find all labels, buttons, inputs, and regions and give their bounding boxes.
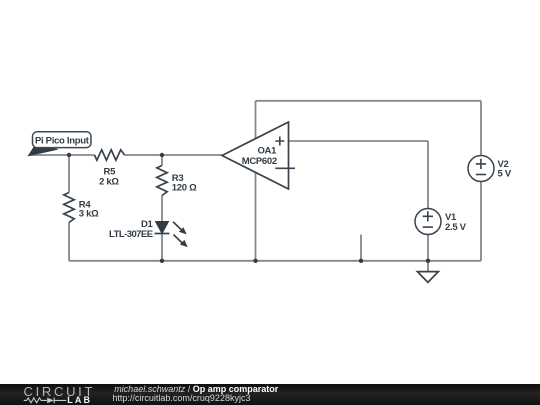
op-amp OA1 triangle [222,122,289,189]
wire: dangling stub at rail [360,235,362,261]
LED arrow 2 [174,235,184,244]
wire: node B down to R3 top [161,155,163,166]
resistor R4 [64,193,74,223]
resistor R3 [157,166,167,196]
wire: op-amp V+ pin up [255,101,257,139]
wire: V2 top lead [480,101,482,156]
node: junction op-amp V- to rail [253,259,257,263]
voltage source V2 [468,156,494,182]
wire: flag tip to R5 [29,154,95,156]
resistor R5 [95,150,125,160]
node: junction D1 to rail [160,259,164,263]
node: junction ground/V1 to rail [426,259,430,263]
diode D1 (LED) [156,222,169,234]
svg-text:2.5 V: 2.5 V [445,222,467,233]
wire: D1 cathode to rail [161,234,163,261]
wire: V2 bottom lead to rail [480,182,482,261]
flag pointer (Pi Pico Input) [29,146,58,155]
node: junction R4/input [67,153,71,157]
wire: op-amp + input to V1 [289,140,429,142]
LED arrow 1 [173,222,182,231]
node: junction stub to rail [359,259,363,263]
svg-text:2 kΩ: 2 kΩ [99,177,119,188]
op-amp + input marker [275,137,284,146]
svg-text:LAB: LAB [67,395,92,405]
wire: op-amp V- pin down to rail [255,172,257,261]
wire: V1 bottom lead to rail [427,235,429,261]
wire: V1 top lead [427,141,429,209]
wire: R5 right to op-amp output apex [125,154,223,156]
svg-text:Pi Pico Input: Pi Pico Input [35,136,90,147]
node: junction R3 top [160,153,164,157]
CircuitLab logo circuit glyph [24,398,67,404]
wire: R4 bottom to ground rail [68,223,70,261]
svg-text:5 V: 5 V [498,169,512,180]
svg-text:MCP602: MCP602 [242,156,277,167]
ground [417,272,438,283]
svg-text:LTL-307EE: LTL-307EE [109,229,153,240]
voltage source V1 [415,209,441,235]
svg-text:http://circuitlab.com/cruq9228: http://circuitlab.com/cruq9228kyjc3 [112,393,250,403]
op-amp - input marker and stub [275,167,295,169]
svg-text:OA1: OA1 [257,145,277,156]
svg-text:3 kΩ: 3 kΩ [79,209,99,220]
svg-text:120 Ω: 120 Ω [172,183,197,194]
wire: node A down to R4 top [68,155,70,193]
wire: ground symbol stub [427,261,429,272]
flag box Pi Pico Input [33,132,92,148]
wire: top supply run to V2 [256,100,482,102]
wire: R3 bottom to D1 anode [161,196,163,222]
wire: bottom ground rail [69,260,481,262]
